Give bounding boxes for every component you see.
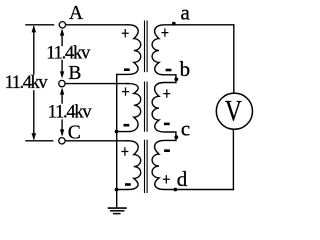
svg-text:11.4kv: 11.4kv: [48, 103, 93, 123]
svg-text:a: a: [181, 0, 191, 24]
svg-text:c: c: [181, 116, 190, 140]
svg-text:A: A: [69, 3, 83, 24]
svg-text:11.4kv: 11.4kv: [5, 73, 49, 93]
svg-text:C: C: [68, 123, 81, 144]
svg-text:11.4kv: 11.4kv: [46, 44, 91, 64]
svg-text:V: V: [225, 94, 242, 127]
svg-text:d: d: [177, 167, 188, 191]
svg-text:b: b: [180, 57, 191, 81]
svg-text:B: B: [68, 63, 81, 84]
